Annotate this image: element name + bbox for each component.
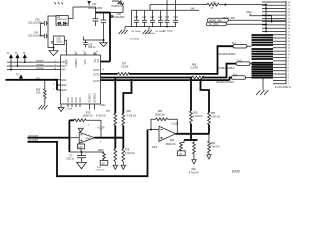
wire PWM line 2	[7, 64, 58, 67]
diode D1 box	[56, 16, 68, 26]
ground open triangle C7	[77, 162, 87, 169]
net arrow 2 above op-amp	[78, 125, 90, 132]
power flag above C42	[87, 1, 91, 4]
svg-text:EXCML20A390U: EXCML20A390U	[218, 53, 236, 56]
diode HG3/PL74	[111, 1, 124, 9]
wire top rail with resistor 47	[150, 5, 207, 11]
svg-text:KL_SOL: KL_SOL	[209, 23, 219, 26]
svg-text:6V: 6V	[179, 153, 182, 156]
capacitor C41	[28, 31, 48, 38]
svg-text:R85: R85	[211, 113, 216, 115]
svg-text:R82: R82	[192, 169, 197, 171]
svg-text:4.7k0.1%: 4.7k0.1%	[96, 170, 105, 172]
wire diode lead	[110, 5, 123, 13]
wire PWM line 3	[7, 68, 58, 71]
svg-text:VCP: VCP	[83, 59, 87, 65]
IC left pin stubs EN1 EN2 EN3	[58, 80, 61, 90]
svg-text:100k0.1%: 100k0.1%	[166, 144, 176, 146]
bold output IC12B row	[176, 133, 210, 135]
svg-text:GND: GND	[71, 97, 74, 103]
svg-text:9: 9	[75, 51, 76, 53]
tiny top ticks	[55, 2, 64, 4]
ground hatch (cap row left)	[119, 27, 128, 34]
resistor R86	[207, 134, 220, 159]
svg-text:R825: R825	[98, 150, 104, 152]
bold input column	[68, 120, 70, 152]
capacitor C36	[163, 0, 178, 33]
filter FL3	[217, 60, 252, 70]
svg-text:R86: R86	[211, 143, 216, 145]
svg-text:C42: C42	[92, 3, 97, 6]
wire C41 down to node	[53, 45, 55, 48]
node on 47 rail	[224, 4, 226, 6]
svg-text:3: 3	[65, 51, 66, 53]
svg-text:6V: 6V	[102, 162, 105, 165]
resistor R84 100k + 6V	[166, 140, 186, 156]
arrow down col1	[113, 165, 117, 169]
bold wire OUT1 line A	[101, 73, 118, 75]
resistor R26	[36, 80, 46, 102]
node C05 rail	[103, 39, 105, 41]
svg-text:EN3: EN3	[62, 88, 68, 92]
oval connector KL_SOL	[206, 22, 226, 26]
resistor R37 inline	[118, 64, 130, 76]
net arrow 2 under IC	[58, 105, 73, 112]
svg-text:OUT3: OUT3	[93, 80, 100, 83]
resistor R81	[190, 111, 203, 123]
svg-text:HDL: HDL	[36, 78, 41, 80]
oval connector HEAD_SW	[207, 18, 228, 22]
bold riser to FL1	[218, 46, 234, 74]
bold wire bars group1	[252, 35, 274, 45]
svg-text:EN2: EN2	[62, 83, 68, 87]
svg-text:Y/PWM: Y/PWM	[36, 64, 44, 66]
svg-text:4.7k0.1%: 4.7k0.1%	[189, 172, 199, 174]
pin numbers IC1	[53, 51, 104, 91]
connector pin stubs upper (pins 26-15)	[262, 2, 286, 38]
svg-text:VMOUT: VMOUT	[74, 58, 78, 68]
bold wire VS riser	[101, 13, 111, 62]
svg-text:CE 1000p: CE 1000p	[131, 31, 142, 33]
bold col joins	[190, 123, 192, 140]
svg-text:4.7k0.1%: 4.7k0.1%	[127, 115, 137, 117]
svg-text:HEAD_SW: HEAD_SW	[222, 16, 235, 20]
svg-text:100k0.1%: 100k0.1%	[155, 114, 165, 116]
svg-text:R26: R26	[36, 90, 41, 92]
battery box 24V	[78, 144, 85, 152]
bold wire bars group2	[252, 49, 274, 59]
svg-text:VREF: VREF	[65, 59, 69, 66]
wire D1 right	[68, 7, 73, 19]
test point T4	[22, 52, 27, 62]
wire C40/C41 left join	[40, 23, 42, 36]
bold riser to FL3	[227, 64, 237, 79]
power flag 26V	[246, 10, 271, 22]
resistor lower col1	[114, 149, 117, 165]
svg-text:IL-FPC-26ST-N: IL-FPC-26ST-N	[275, 87, 291, 89]
svg-text:CE 1000p: CE 1000p	[145, 33, 156, 35]
bold wire OUT3 line C	[101, 79, 230, 81]
capacitor C05	[83, 40, 96, 49]
bold drop col1 R81	[190, 78, 192, 111]
wire PWM line 1	[7, 60, 58, 63]
svg-text:R83: R83	[158, 111, 163, 113]
arrow down col2	[121, 165, 125, 169]
resistor R85	[208, 113, 220, 125]
svg-text:0.1/1W: 0.1/1W	[121, 66, 129, 68]
svg-text:EA30: EA30	[232, 170, 240, 174]
feedback resistor R83	[151, 111, 177, 134]
resistor R (47)	[207, 2, 219, 9]
svg-text:4.7k0.1%: 4.7k0.1%	[210, 146, 220, 148]
svg-text:6: 6	[53, 84, 54, 86]
wire KL_SOL	[227, 23, 266, 25]
bold step down to sense network	[123, 80, 131, 113]
ground hatch (cap row right)	[143, 27, 152, 34]
svg-text:GND: GND	[67, 97, 70, 103]
svg-text:220u/63V: 220u/63V	[115, 16, 126, 19]
svg-text:C06: C06	[57, 38, 62, 40]
filter FL1	[218, 43, 252, 56]
svg-text:SENSE2: SENSE2	[94, 92, 97, 102]
svg-text:R79: R79	[125, 150, 130, 152]
svg-text:R37: R37	[122, 64, 127, 66]
svg-text:4.7k0.1%: 4.7k0.1%	[125, 153, 135, 155]
svg-text:IN3: IN3	[62, 68, 67, 72]
svg-text:EN1: EN1	[62, 78, 68, 82]
IC top pin stubs	[67, 52, 96, 55]
capacitor C08 small	[110, 15, 114, 18]
capacitor C42	[73, 3, 103, 26]
op-amp IC12A	[76, 126, 105, 143]
bold wire EN rail	[6, 78, 59, 81]
svg-text:10: 10	[102, 69, 104, 71]
net label HEAD_SW wire	[222, 16, 286, 20]
svg-text:R81: R81	[194, 112, 199, 114]
svg-text:8: 8	[84, 51, 85, 53]
feedback resistor R76	[69, 112, 101, 137]
bold wire EN drop	[56, 80, 58, 90]
bold wire OUT2 line B	[101, 77, 193, 79]
resistor R75 100k to 6V	[96, 150, 108, 172]
svg-text:R77: R77	[106, 111, 111, 113]
connector CN spine	[285, 1, 287, 84]
svg-text:VS: VS	[96, 59, 100, 63]
wire cap right riser	[48, 16, 56, 36]
IC left pin stubs IN1 IN2 IN3	[58, 62, 61, 70]
bold wire bars group3	[252, 63, 274, 78]
net label wire 2 bottom left	[28, 130, 148, 177]
bus junction dots	[265, 4, 267, 6]
bold jog to FL2	[230, 78, 232, 81]
svg-text:2 3 8 8: 2 3 8 8	[66, 108, 73, 110]
svg-text:4.7k0.1%: 4.7k0.1%	[193, 116, 203, 118]
ground (open triangle)	[49, 48, 58, 55]
ground arrow right of C05	[100, 40, 107, 47]
svg-text:EXCML20X390U: EXCML20X390U	[217, 82, 235, 84]
test point T2	[15, 52, 20, 66]
svg-text:GND: GND	[79, 97, 82, 103]
bold output wire	[95, 137, 124, 139]
svg-text:0.1/1W: 0.1/1W	[191, 67, 199, 69]
svg-text:7: 7	[53, 89, 54, 91]
ground under connector	[256, 78, 268, 95]
svg-text:R84: R84	[170, 140, 175, 142]
svg-text:DAN202U: DAN202U	[57, 18, 67, 21]
bold drop col2 from line C	[201, 80, 210, 113]
svg-text:CE1u: CE1u	[57, 41, 63, 43]
resistor R77	[96, 111, 117, 125]
capacitor C44 electrolytic	[101, 13, 126, 41]
test point T1	[7, 52, 13, 70]
capacitor C40	[28, 19, 48, 26]
capacitor C35	[165, 0, 170, 27]
capacitor C7	[67, 152, 87, 162]
resistor R82	[189, 140, 199, 174]
svg-text:4.7k0.1%: 4.7k0.1%	[210, 117, 220, 119]
IC bottom pins GND	[68, 104, 95, 110]
svg-text:C63.1u: C63.1u	[88, 47, 96, 49]
wire input to op-amp	[69, 137, 79, 139]
bold drop R77	[114, 78, 116, 114]
bold wire top center	[96, 12, 111, 14]
connector bus vertical	[265, 5, 267, 32]
connector pin stubs lower (pins 14-1)	[273, 41, 286, 84]
resistor R08 inline	[191, 65, 205, 79]
connector pin numbers	[288, 2, 291, 86]
svg-text:HG3/PL74: HG3/PL74	[111, 6, 122, 8]
svg-text:CE 1000p: CE 1000p	[163, 31, 174, 33]
bold sense columns down	[114, 125, 116, 148]
svg-text:GND: GND	[75, 97, 78, 103]
svg-text:U234: U234	[100, 105, 106, 107]
op-amp IC12B	[152, 122, 179, 148]
IC right pins OUT1 OUT2 OUT3	[93, 69, 100, 83]
node junction	[53, 47, 55, 49]
wire C05 rail	[83, 37, 104, 41]
svg-text:4.7k0.1%: 4.7k0.1%	[96, 115, 106, 117]
test point T3	[16, 73, 23, 79]
capacitor C06 box	[51, 36, 64, 45]
svg-text:OUT1: OUT1	[93, 69, 100, 72]
svg-text:SENSE1: SENSE1	[89, 92, 92, 102]
svg-text:R76: R76	[86, 112, 91, 114]
bold row2	[184, 139, 198, 141]
svg-text:OUT2: OUT2	[93, 73, 100, 76]
svg-text:X/PWM: X/PWM	[36, 68, 44, 70]
resistor R80	[122, 111, 136, 125]
IC U23 main driver box	[61, 55, 101, 104]
svg-text:15: 15	[96, 51, 98, 53]
svg-text:24V: 24V	[191, 8, 196, 11]
svg-text:C63.1u: C63.1u	[67, 158, 75, 160]
resistor R79	[122, 149, 135, 165]
ground hatch R26	[38, 102, 47, 109]
svg-text:3403: 3403	[152, 147, 158, 149]
svg-text:100k0.1%: 100k0.1%	[83, 116, 93, 118]
svg-text:CE 1000p: CE 1000p	[130, 39, 141, 41]
svg-text:26V: 26V	[246, 10, 251, 14]
svg-text:Z/PWM: Z/PWM	[36, 60, 43, 62]
wire C06 to IC VREF	[64, 40, 66, 52]
svg-text:R08: R08	[192, 65, 197, 67]
wire into IC12B	[148, 129, 160, 131]
svg-text:24V: 24V	[78, 146, 83, 149]
svg-text:3403: 3403	[85, 138, 91, 140]
svg-text:R80: R80	[127, 111, 132, 113]
capacitor row C30 C31 C32 C33	[125, 10, 199, 40]
wire y152 node row	[69, 151, 104, 153]
svg-text:IC12A: IC12A	[98, 126, 105, 129]
filter FL2	[217, 74, 252, 84]
net label wire 1 bottom left	[28, 136, 70, 138]
